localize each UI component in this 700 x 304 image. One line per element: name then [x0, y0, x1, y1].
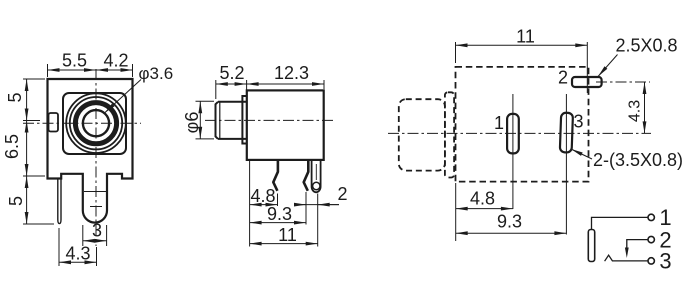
arrow into lug line	[318, 204, 339, 206]
svg-text:6.5: 6.5	[2, 134, 22, 159]
extension line 11 right / slot2 axis	[586, 42, 588, 93]
side view ground lug	[312, 161, 321, 192]
svg-text:1: 1	[494, 113, 504, 133]
top view horizontal centerline	[388, 132, 651, 134]
dimension line 2 (outside arrows)	[295, 204, 339, 206]
side view pin B (bent leg)	[304, 161, 309, 191]
extension line pin B center	[305, 192, 307, 225]
dimension line 5 upper left	[26, 79, 28, 121]
jack inner hole circle (phi 3.6)	[83, 110, 109, 136]
extension line phi6 bottom	[196, 138, 215, 140]
pin slot 3	[560, 113, 573, 153]
dimension line 5.5	[48, 69, 97, 71]
vertical centerline front view	[95, 69, 97, 246]
svg-text:4.8: 4.8	[250, 186, 275, 206]
horizontal centerline front view	[23, 122, 141, 124]
side view flange collar	[242, 96, 246, 144]
switch arrow on wire 2	[625, 248, 629, 259]
side view barrel end seam	[219, 103, 221, 139]
extension line phi6 top	[196, 100, 215, 102]
dimension line 4.3	[59, 261, 97, 263]
dimension line 11 top	[456, 44, 588, 46]
dimension line 11 side	[250, 243, 318, 245]
left extension line at body top	[23, 78, 45, 80]
dimension line 9.3 side	[250, 222, 306, 224]
terminal circle 1	[648, 214, 654, 220]
svg-text:4.3: 4.3	[65, 244, 90, 264]
leader line 2-(3.5X0.8)	[571, 149, 592, 159]
slot1 center line vertical	[512, 94, 514, 209]
extension line pin A center	[277, 194, 279, 207]
dimension line 3	[83, 240, 107, 242]
dimension line 5 lower left	[26, 176, 28, 224]
svg-text:φ6: φ6	[182, 112, 202, 134]
left extension line at pin tip	[23, 223, 54, 225]
svg-text:4.2: 4.2	[103, 50, 128, 70]
slot3 center line vertical	[565, 94, 567, 235]
left extension line at tab center	[23, 120, 40, 122]
slot2 centerline	[596, 81, 650, 83]
top view flange (hidden, dashed)	[445, 92, 454, 177]
pin slot 1	[507, 114, 519, 153]
wire to terminal 1	[592, 217, 648, 229]
svg-text:5: 5	[5, 92, 25, 102]
wire to terminal 2	[627, 240, 648, 250]
extension line top view 4.8 left	[455, 183, 457, 241]
schematic tip contact rectangle	[588, 230, 594, 262]
leader line for phi 3.6	[105, 80, 142, 114]
svg-text:3: 3	[573, 111, 583, 131]
dimension line 9.3 top view	[456, 232, 567, 234]
left extension line at body bottom	[23, 175, 45, 177]
svg-text:2-(3.5X0.8): 2-(3.5X0.8)	[593, 150, 683, 170]
svg-text:5: 5	[6, 196, 26, 206]
svg-text:11: 11	[278, 225, 297, 245]
side view barrel	[216, 102, 247, 139]
terminal circle 3	[648, 258, 654, 264]
jack barrel second circle	[70, 97, 122, 149]
svg-text:3: 3	[659, 249, 671, 274]
dimension line 4.2	[96, 69, 133, 71]
pin slot 2	[572, 77, 602, 87]
svg-text:2: 2	[558, 67, 568, 87]
dimension line 6.5 left	[26, 121, 28, 177]
svg-text:5.2: 5.2	[219, 63, 244, 83]
top view barrel (hidden, dashed)	[399, 99, 445, 170]
extension line top left	[47, 64, 49, 77]
mounting tab on left side	[49, 113, 59, 132]
arrow into pin B line	[295, 204, 306, 206]
side view pin A (bent leg)	[273, 161, 278, 191]
extension line side 4.8 left	[249, 161, 251, 247]
svg-text:2: 2	[337, 184, 347, 204]
prong center cross dash	[90, 206, 102, 208]
extension line pin for 4.3	[58, 228, 60, 266]
svg-text:3: 3	[92, 221, 102, 241]
extension line prong center for 4.3	[96, 247, 98, 266]
side view horizontal centerline	[205, 119, 336, 121]
extension line prong right	[106, 225, 108, 246]
dimension line 5.2	[216, 83, 247, 85]
svg-text:4.8: 4.8	[470, 189, 495, 209]
svg-text:5.5: 5.5	[62, 50, 87, 70]
front face plate (rounded square)	[63, 93, 126, 154]
dimension line 4.8 top view	[456, 208, 513, 210]
extension line 11 left	[455, 42, 457, 63]
svg-text:9.3: 9.3	[267, 204, 292, 224]
dimension line phi6	[199, 101, 201, 139]
jack barrel outer circle	[66, 93, 126, 153]
front view left solder pin	[58, 179, 61, 224]
ground lug inner centerline	[315, 164, 317, 180]
extension line 5.2 right	[246, 80, 248, 94]
extension line 12.3 right	[323, 80, 325, 89]
svg-text:12.3: 12.3	[274, 63, 309, 83]
side view body rectangle	[247, 90, 324, 159]
extension line prong left	[82, 225, 84, 246]
spring contact caret	[605, 255, 648, 261]
svg-text:φ3.6: φ3.6	[139, 64, 174, 83]
front view jack body outline	[48, 79, 133, 223]
jack thick ring	[75, 103, 116, 144]
dimension line 4.3 top view	[644, 82, 646, 133]
ground lug hole	[313, 182, 320, 189]
prong inner seam line	[84, 191, 106, 193]
leader line 2.5X0.8	[598, 55, 618, 77]
svg-text:9.3: 9.3	[497, 212, 522, 232]
svg-text:4.3: 4.3	[627, 100, 644, 122]
svg-text:2.5X0.8: 2.5X0.8	[615, 36, 677, 56]
dimension line 12.3	[247, 83, 324, 85]
svg-text:11: 11	[516, 27, 535, 47]
extension line 5.2 left	[215, 80, 217, 99]
dimension line 4.8 side	[250, 204, 278, 206]
top view body (hidden, dashed)	[456, 67, 589, 182]
extension line top right	[132, 64, 134, 77]
terminal circle 2	[648, 236, 654, 242]
extension line lug center	[317, 194, 319, 247]
